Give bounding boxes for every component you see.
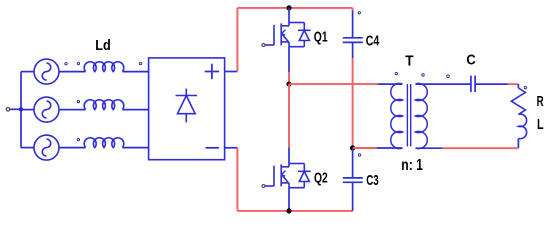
wire C4 bottom lead blue xyxy=(352,42,354,58)
wire input stub xyxy=(10,108,21,110)
inductor Ld row1 xyxy=(84,62,124,72)
inductor L xyxy=(518,114,526,139)
wire load bottom blue to secondary xyxy=(416,147,443,149)
svg-text:n: 1: n: 1 xyxy=(401,157,423,174)
pin circle row1 c xyxy=(139,62,141,64)
svg-text:C: C xyxy=(466,52,475,69)
node junction bottom rail xyxy=(286,208,291,213)
capacitor C4 xyxy=(343,38,363,43)
wire rectifier minus out xyxy=(225,147,238,149)
inductor Ld row2 xyxy=(84,100,124,110)
minus sign rectifier xyxy=(206,147,220,149)
transistor Q2 MOSFET with body diode xyxy=(265,164,311,188)
wire secondary top to C xyxy=(416,83,471,85)
node input terminal xyxy=(6,108,10,112)
wire C4 bottom lead red to cap midpoint xyxy=(352,58,354,148)
svg-text:T: T xyxy=(405,53,413,70)
pin circle row3 xyxy=(77,138,79,140)
wire Q2 drain lead red xyxy=(288,84,290,147)
wire C to corner red xyxy=(508,83,519,85)
transformer T primary winding xyxy=(391,83,403,148)
wire primary bottom red xyxy=(353,147,377,149)
plus sign rectifier xyxy=(205,64,220,79)
capacitor C3 xyxy=(343,178,363,182)
wire row2 Ld to rectifier xyxy=(122,109,148,111)
wire row1 source to La xyxy=(59,71,86,73)
wire L bottom lead xyxy=(517,138,519,148)
node junction cap midpoint xyxy=(350,145,355,150)
wire mid bus red xyxy=(289,83,378,85)
wire load bottom red xyxy=(442,147,518,149)
transformer core lines xyxy=(407,84,410,147)
pin circle C4 xyxy=(358,12,360,14)
pin circle R top xyxy=(524,86,526,88)
pin circle C3 xyxy=(358,154,360,156)
wire Q1 drain lead xyxy=(288,8,290,23)
inductor Ld row3 xyxy=(84,138,124,148)
svg-text:L: L xyxy=(537,116,544,133)
wire row3 Ld to rectifier xyxy=(122,147,148,149)
svg-text:Q1: Q1 xyxy=(314,29,328,46)
AC source VC xyxy=(34,135,59,160)
wire row3 bus to source xyxy=(21,147,34,149)
pin circle row1 b xyxy=(77,62,79,64)
svg-text:Ld: Ld xyxy=(95,37,111,54)
node junction left bus xyxy=(19,107,23,111)
wire left bus vertical xyxy=(20,72,22,148)
wire primary bottom blue xyxy=(377,147,403,149)
wire C3 top lead xyxy=(352,148,354,178)
wire Q1 source lead blue xyxy=(288,47,290,72)
wire Q1 source lead red xyxy=(288,72,290,84)
pin circle after secondary xyxy=(447,75,450,78)
wire row2 source to Lb xyxy=(59,109,86,111)
transformer T secondary winding xyxy=(416,83,428,148)
wire top rail red xyxy=(237,7,352,9)
wire bottom rail red xyxy=(237,210,352,212)
wire Q2 drain lead blue xyxy=(288,147,290,163)
wire row2 bus to source xyxy=(21,109,34,111)
pin circle row1 a xyxy=(65,63,67,65)
pin circle primary top xyxy=(395,72,397,74)
transistor Q1 MOSFET with body diode xyxy=(265,23,311,47)
wire C4 top lead xyxy=(352,8,354,11)
svg-text:Q2: Q2 xyxy=(314,170,328,187)
wire DC- dropper red xyxy=(236,148,238,211)
pin circle secondary top xyxy=(422,74,425,77)
pin circle Q2 gate xyxy=(262,185,265,188)
svg-text:R: R xyxy=(537,93,544,110)
node junction mid bus xyxy=(286,82,291,87)
wire Q2 source lead xyxy=(288,188,290,211)
pin circle Q1 gate xyxy=(262,44,265,47)
svg-text:C3: C3 xyxy=(366,172,379,189)
resistor R xyxy=(511,88,525,114)
wire mid bus blue to primary xyxy=(378,83,402,85)
wire R top lead xyxy=(517,84,519,88)
node junction top rail Q1 drain xyxy=(286,5,291,10)
wire C3 bottom lead xyxy=(352,182,354,211)
pin circle row2 xyxy=(77,100,79,102)
wire DC+ riser red xyxy=(236,8,238,72)
wire C to corner blue xyxy=(475,83,508,85)
wire row1 Ld to rectifier xyxy=(122,71,148,73)
AC source VB xyxy=(34,97,59,122)
wire row1 bus to source xyxy=(21,71,34,73)
AC source VA xyxy=(34,59,59,84)
capacitor C xyxy=(471,76,475,92)
rectifier bridge box xyxy=(149,58,225,160)
diode inside rectifier xyxy=(176,89,198,123)
svg-text:C4: C4 xyxy=(366,33,380,50)
wire row3 source to Lc xyxy=(59,147,86,149)
wire rectifier plus out xyxy=(225,71,238,73)
